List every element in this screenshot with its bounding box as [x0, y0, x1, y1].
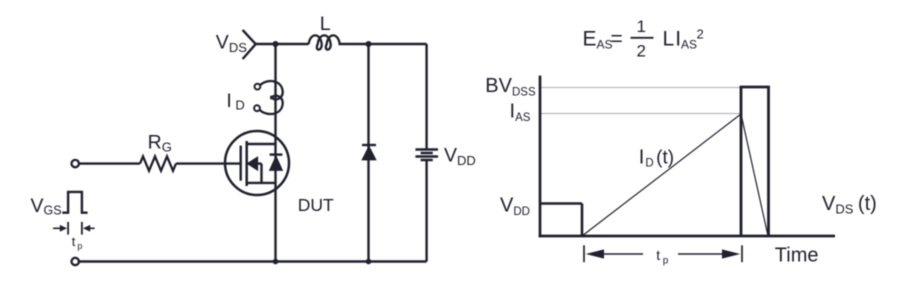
- svg-text:L: L: [320, 13, 331, 35]
- svg-text:2: 2: [637, 42, 646, 61]
- svg-text:1: 1: [637, 17, 646, 36]
- svg-text:DUT: DUT: [298, 195, 334, 215]
- svg-text:Time: Time: [775, 245, 819, 267]
- svg-text:ID(t): ID(t): [639, 147, 674, 170]
